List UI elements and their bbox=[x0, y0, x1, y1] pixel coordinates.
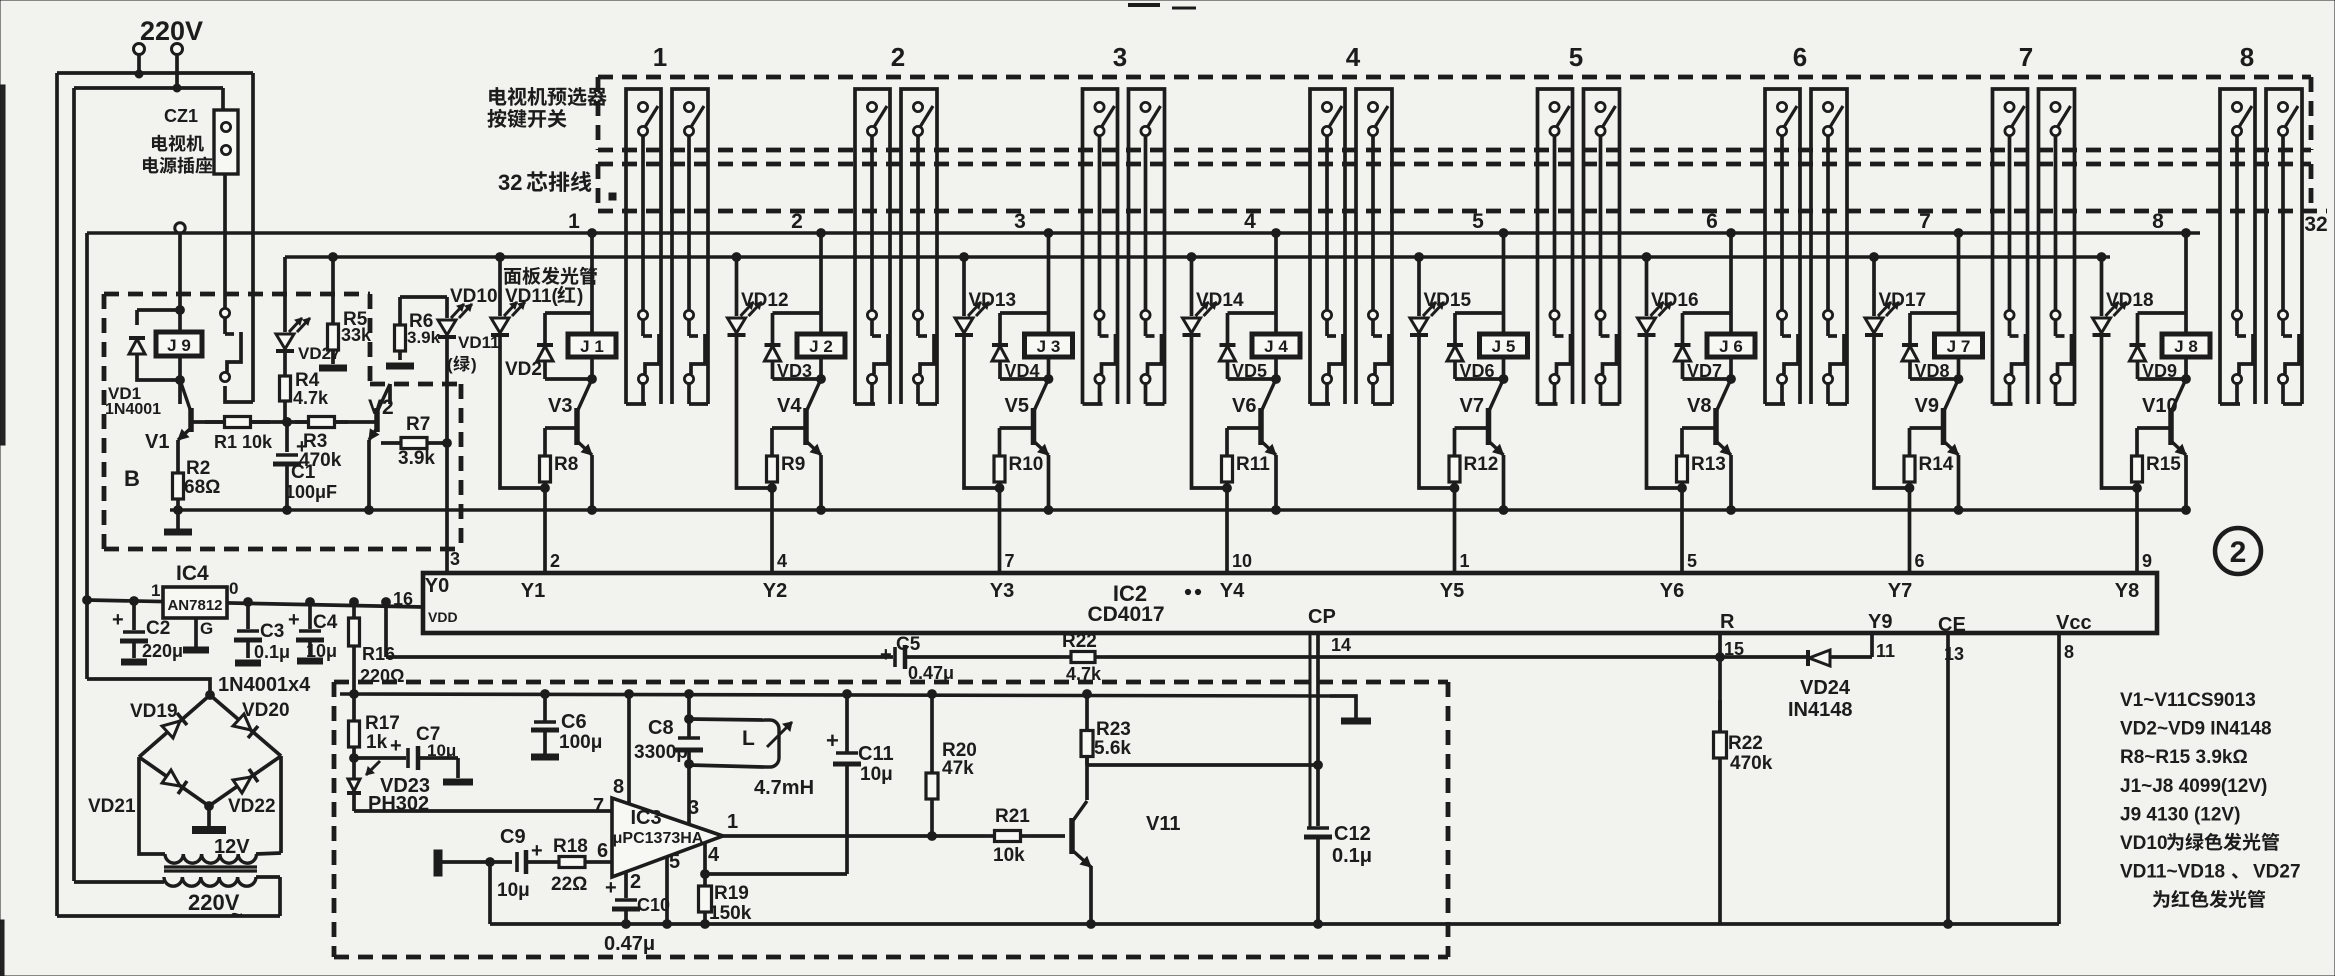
svg-text:VD15: VD15 bbox=[1424, 290, 1472, 311]
label C1 bbox=[291, 462, 316, 483]
wire Y7 column bbox=[1908, 488, 1912, 573]
label Y9 bbox=[1868, 611, 1892, 633]
wire inner loop left rail bbox=[72, 88, 76, 881]
svg-text:7: 7 bbox=[593, 795, 604, 817]
LED VD27 bbox=[276, 257, 310, 372]
IC IC2 box bbox=[423, 573, 2157, 633]
wire LED to R ch6 bbox=[1647, 481, 1683, 488]
svg-text:+: + bbox=[288, 609, 300, 631]
label R3 value bbox=[299, 450, 342, 471]
svg-text:7: 7 bbox=[1919, 210, 1931, 233]
label channel number 3 bbox=[1113, 42, 1127, 72]
label IC3 pin1 bbox=[727, 811, 738, 833]
svg-text:V10: V10 bbox=[2142, 395, 2178, 417]
diode VD1 bbox=[129, 338, 145, 354]
label VD12 bbox=[741, 290, 789, 311]
svg-text:R8: R8 bbox=[554, 454, 578, 475]
node J8 bottom bbox=[2182, 375, 2191, 384]
node J1 bottom bbox=[588, 375, 597, 384]
svg-text:J 3: J 3 bbox=[1037, 337, 1061, 356]
capacitor C6 bbox=[531, 690, 559, 757]
label CZ1 dianyuanchazuo bbox=[143, 156, 212, 173]
svg-text:(: ( bbox=[447, 355, 453, 374]
ground bridge bbox=[192, 806, 226, 830]
label IC2 bbox=[1113, 581, 1147, 606]
wire jog ch6 bbox=[1683, 311, 1732, 315]
wire VD11 to R8 bbox=[500, 481, 545, 488]
svg-text:1k: 1k bbox=[366, 732, 388, 753]
label R4 bbox=[295, 370, 320, 391]
resistor R22a bbox=[1060, 652, 1106, 663]
node V1 ground bbox=[174, 506, 183, 515]
wire drop ch5 bbox=[1502, 233, 1506, 313]
label R17 bbox=[365, 713, 400, 734]
wire J4 coil bbox=[1274, 313, 1278, 379]
svg-text:R18: R18 bbox=[553, 836, 588, 857]
label node 1 bbox=[568, 210, 580, 233]
svg-text:R15: R15 bbox=[2146, 454, 2181, 475]
svg-text:32: 32 bbox=[498, 170, 522, 195]
capacitor C8 bbox=[675, 719, 703, 764]
node emitter ch3 bbox=[1044, 506, 1053, 515]
wire V2 collector up bbox=[388, 384, 392, 404]
label C1 value bbox=[285, 482, 337, 502]
svg-text:8: 8 bbox=[613, 776, 624, 798]
note line 4 bbox=[2120, 776, 2267, 797]
label 32xin bbox=[498, 170, 591, 195]
wire pin1 out bbox=[723, 834, 985, 838]
label pin 5 ch6 bbox=[1687, 551, 1697, 571]
label R15 bbox=[2146, 454, 2181, 475]
scan edge artifact bottom bbox=[0, 920, 4, 976]
label channel number 2 bbox=[891, 42, 905, 72]
label V8 bbox=[1687, 395, 1711, 417]
wire Y8 column bbox=[2135, 488, 2139, 573]
label C9 bbox=[500, 826, 526, 848]
svg-text:Y7: Y7 bbox=[1888, 580, 1912, 602]
svg-text:V7: V7 bbox=[1460, 395, 1484, 417]
label IC3 pin4 bbox=[708, 844, 720, 866]
wire bridge to rail bbox=[87, 679, 210, 695]
label Y3 bbox=[990, 580, 1014, 602]
svg-text:3.9k: 3.9k bbox=[398, 448, 435, 469]
label C11 plus bbox=[826, 728, 839, 753]
svg-text:V1~V11CS9013: V1~V11CS9013 bbox=[2120, 690, 2256, 711]
wire drop ch8 bbox=[2184, 233, 2188, 313]
svg-text:9: 9 bbox=[2142, 551, 2152, 571]
scan edge artifact bbox=[0, 85, 5, 445]
relay J5 box bbox=[1480, 334, 1528, 357]
svg-text:VD19: VD19 bbox=[130, 701, 178, 722]
label pin11 bbox=[1876, 641, 1895, 661]
label L value bbox=[754, 777, 814, 799]
svg-text:2: 2 bbox=[891, 42, 905, 72]
wire R line drop bbox=[382, 598, 391, 657]
node pin8 top bbox=[625, 690, 634, 699]
resistor R14 bbox=[1904, 428, 1915, 488]
wire pin5 bbox=[665, 857, 669, 924]
label Y8 bbox=[2115, 580, 2139, 602]
capacitor C12 bbox=[1304, 765, 1332, 924]
label VD1 bbox=[108, 384, 141, 403]
label IC3 bbox=[630, 807, 661, 829]
transistor V10 bbox=[2171, 379, 2186, 455]
node LED ch6 on bus2 bbox=[1642, 253, 1651, 262]
svg-text:V5: V5 bbox=[1005, 395, 1029, 417]
relay J3 box bbox=[1025, 334, 1073, 357]
svg-text:C6: C6 bbox=[561, 711, 587, 733]
wire L top feed bbox=[687, 694, 691, 719]
label C2 plus bbox=[112, 609, 124, 631]
switch channel 6 unit B bbox=[1811, 89, 1847, 404]
node R19 gnd bbox=[701, 920, 710, 929]
label VDD bbox=[428, 609, 458, 625]
svg-text:R23: R23 bbox=[1096, 719, 1131, 740]
node J6 bottom bbox=[1727, 375, 1736, 384]
label C12 bbox=[1334, 823, 1371, 845]
svg-text:VDD: VDD bbox=[428, 609, 458, 625]
label 32 bbox=[2304, 213, 2327, 236]
diode VD8 bbox=[1902, 313, 1918, 379]
ground V1 bbox=[164, 510, 192, 532]
svg-text:J 1: J 1 bbox=[580, 337, 604, 356]
wire LED to R ch5 bbox=[1419, 481, 1455, 488]
dashed box B outline bbox=[104, 294, 461, 549]
wire base ch5 bbox=[1455, 426, 1489, 430]
wire emitter ch6 bbox=[1729, 455, 1733, 510]
node 1 on bus1 bbox=[588, 229, 597, 238]
label R18 bbox=[553, 836, 588, 857]
bridge edge VD20 bbox=[210, 695, 281, 756]
label tilde bbox=[231, 904, 243, 926]
label VD4 bbox=[1005, 361, 1040, 381]
node V2 ground bbox=[365, 506, 374, 515]
svg-text:IN4148: IN4148 bbox=[1788, 699, 1853, 721]
svg-text:R: R bbox=[1720, 611, 1735, 633]
transistor V6 bbox=[1261, 379, 1276, 455]
node 6 on bus1 bbox=[1727, 229, 1736, 238]
label CP bbox=[1308, 606, 1336, 628]
inductor primary 220V bbox=[164, 877, 280, 916]
svg-text:J 8: J 8 bbox=[2174, 337, 2198, 356]
label VD10 color2 bbox=[447, 355, 477, 374]
wire IR top bus bbox=[340, 694, 1330, 696]
label C10 value bbox=[604, 933, 655, 955]
wire 220V left feed bbox=[135, 54, 143, 78]
label V7 bbox=[1460, 395, 1484, 417]
svg-text:V3: V3 bbox=[548, 395, 572, 417]
svg-text:IC3: IC3 bbox=[630, 807, 661, 829]
label V2 bbox=[368, 396, 394, 419]
label J1 bbox=[580, 337, 604, 356]
svg-text:3.9k: 3.9k bbox=[407, 328, 441, 347]
node bridge bottom bbox=[205, 802, 214, 811]
label C4 plus bbox=[288, 609, 300, 631]
resistor R5 bbox=[328, 257, 339, 364]
svg-text:VD13: VD13 bbox=[969, 290, 1017, 311]
svg-text:R22: R22 bbox=[1062, 631, 1097, 652]
label C2 bbox=[146, 618, 170, 639]
label VD24 bbox=[1800, 677, 1851, 699]
wire drop ch6 bbox=[1729, 233, 1733, 313]
svg-text:10: 10 bbox=[1232, 551, 1252, 571]
resistor R12 bbox=[1449, 428, 1460, 488]
svg-text:IC4: IC4 bbox=[176, 562, 209, 585]
node C12 gnd bbox=[1314, 920, 1323, 929]
label pin 6 ch7 bbox=[1915, 551, 1925, 571]
label CZ1 bbox=[164, 106, 198, 126]
switch channel 2 unit A bbox=[855, 89, 890, 404]
switch channel 7 unit B bbox=[2039, 89, 2075, 404]
node L bus bbox=[685, 690, 694, 699]
label pin 7 ch3 bbox=[1005, 551, 1015, 571]
node R5 top bbox=[329, 253, 338, 262]
svg-text:C2: C2 bbox=[146, 618, 170, 639]
svg-text:Y0: Y0 bbox=[425, 575, 449, 597]
switch channel 3 unit A bbox=[1083, 89, 1118, 404]
wire diode bottom ch7 bbox=[1910, 377, 1959, 381]
capacitor C3 bbox=[234, 598, 262, 663]
svg-text:Y8: Y8 bbox=[2115, 580, 2139, 602]
svg-text:+: + bbox=[296, 436, 308, 458]
contact J9 pole A bbox=[220, 308, 241, 381]
IC IC4 box bbox=[163, 587, 227, 618]
wire diode bottom ch8 bbox=[2138, 377, 2187, 381]
svg-text:VD20: VD20 bbox=[242, 700, 290, 721]
wire J7 coil bbox=[1957, 313, 1961, 379]
diode VD9 bbox=[2130, 313, 2146, 379]
capacitor C10 bbox=[612, 900, 640, 924]
svg-text:7: 7 bbox=[2019, 42, 2033, 72]
wire diode bottom ch6 bbox=[1683, 377, 1732, 381]
svg-text:CD4017: CD4017 bbox=[1087, 603, 1164, 626]
label node 3 bbox=[1014, 210, 1026, 233]
svg-text:1: 1 bbox=[151, 581, 160, 600]
wire J6 coil bbox=[1729, 313, 1733, 379]
svg-text:V8: V8 bbox=[1687, 395, 1711, 417]
svg-text:4.7mH: 4.7mH bbox=[754, 777, 814, 799]
transistor V8 bbox=[1716, 379, 1731, 455]
svg-text:V4: V4 bbox=[777, 395, 802, 417]
label R4 value bbox=[293, 388, 329, 408]
wire C9 gnd drop bbox=[488, 862, 492, 924]
diode VD7 bbox=[1675, 313, 1691, 379]
terminal 220V left bbox=[134, 44, 145, 55]
core lines bbox=[164, 867, 257, 871]
switch channel 5 unit A bbox=[1538, 89, 1573, 404]
label C11 value bbox=[860, 764, 893, 785]
node emitter ch2 bbox=[817, 506, 826, 515]
svg-text:C9: C9 bbox=[500, 826, 526, 848]
wire pin15 drop bbox=[1718, 633, 1722, 736]
wire pin8 bbox=[627, 694, 631, 804]
resistor R3 bbox=[295, 417, 348, 428]
wire bus line2 LED bbox=[285, 255, 2110, 259]
svg-text:220V: 220V bbox=[140, 16, 203, 46]
label channel number 6 bbox=[1793, 42, 1807, 72]
node J9 bottom bbox=[176, 376, 185, 385]
scan mark top1 bbox=[1128, 3, 1160, 7]
svg-text:J1~J8 4099(12V): J1~J8 4099(12V) bbox=[2120, 776, 2267, 797]
transistor V1 bbox=[178, 380, 191, 440]
label VD9 bbox=[2142, 361, 2177, 381]
label R8 bbox=[554, 454, 578, 475]
wire ground bus bottom bbox=[490, 922, 2059, 926]
switch channel 8 unit A bbox=[2220, 89, 2255, 404]
label Y5 bbox=[1440, 580, 1464, 602]
capacitor C2 bbox=[120, 597, 148, 662]
wire pin11 stub bbox=[1870, 633, 1874, 657]
node terminal on bus1 bbox=[175, 223, 185, 233]
relay J4 box bbox=[1252, 334, 1300, 357]
svg-text:47k: 47k bbox=[942, 758, 974, 779]
dashed box ribbon cable bbox=[598, 164, 2327, 211]
scan mark top2 bbox=[1172, 7, 1196, 10]
switch channel 5 unit B bbox=[1584, 89, 1620, 404]
transistor V5 bbox=[1034, 379, 1049, 455]
wire Y1 column bbox=[543, 488, 547, 573]
svg-text:R8~R15 3.9kΩ: R8~R15 3.9kΩ bbox=[2120, 747, 2248, 768]
svg-text:2: 2 bbox=[2230, 536, 2247, 569]
wire base line V1-V2 bbox=[191, 420, 375, 424]
label J8 bbox=[2174, 337, 2198, 356]
transistor V4 bbox=[806, 379, 821, 455]
svg-text:0: 0 bbox=[229, 579, 238, 598]
resistor R10 bbox=[994, 428, 1005, 488]
capacitor C7 bbox=[354, 746, 473, 782]
label node 2 bbox=[791, 210, 803, 233]
relay J6 box bbox=[1707, 334, 1755, 357]
svg-text:C11: C11 bbox=[858, 743, 894, 765]
wire inner loop right drop bbox=[223, 88, 225, 110]
node LED ch5 on bus2 bbox=[1415, 253, 1424, 262]
node emitter ch5 bbox=[1499, 506, 1508, 515]
svg-text:R14: R14 bbox=[1919, 454, 1954, 475]
svg-text:5: 5 bbox=[1472, 210, 1484, 233]
svg-text:1: 1 bbox=[1460, 551, 1470, 571]
svg-text:μPC1373HA: μPC1373HA bbox=[613, 830, 704, 847]
node emitter ch7 bbox=[1954, 506, 1963, 515]
svg-text:C1: C1 bbox=[291, 462, 316, 483]
resistor R17 bbox=[349, 694, 360, 758]
svg-text:C8: C8 bbox=[648, 717, 674, 739]
label IC4 pinG bbox=[200, 619, 213, 638]
switch channel 4 unit B bbox=[1356, 89, 1392, 404]
label R21 bbox=[995, 806, 1030, 827]
wire emitter ch2 bbox=[819, 455, 823, 510]
svg-text:VD24: VD24 bbox=[1800, 677, 1851, 699]
wire pin8 Vcc drop bbox=[2057, 633, 2061, 924]
label channel number 7 bbox=[2019, 42, 2033, 72]
label R22a bbox=[1062, 631, 1097, 652]
label VD16 bbox=[1651, 290, 1699, 311]
socket CZ1 pin2 bbox=[221, 145, 230, 154]
label Y7 bbox=[1888, 580, 1912, 602]
node R11 bottom bbox=[1223, 484, 1232, 493]
resistor R23 bbox=[1081, 690, 1093, 765]
label R7 bbox=[406, 414, 430, 435]
wire outer loop left rail bbox=[55, 73, 59, 916]
wire pin15 to gnd bus bbox=[1718, 790, 1722, 924]
svg-text:V9: V9 bbox=[1915, 395, 1939, 417]
wire diode bottom ch2 bbox=[773, 377, 822, 381]
diode VD24 bbox=[1720, 650, 1872, 666]
switch channel 1 unit A bbox=[626, 89, 661, 404]
label node 4 bbox=[1244, 210, 1256, 233]
label pin14 bbox=[1331, 635, 1351, 655]
label anjiankaiguan bbox=[487, 109, 566, 128]
resistor R22b 470k bbox=[1714, 700, 1727, 790]
node L top bbox=[685, 715, 694, 724]
label R18 value bbox=[551, 874, 587, 895]
svg-text:R16: R16 bbox=[362, 644, 395, 664]
svg-text:Y3: Y3 bbox=[990, 580, 1014, 602]
label R7 value bbox=[398, 448, 435, 469]
svg-text:): ) bbox=[471, 355, 477, 374]
svg-text:VD16: VD16 bbox=[1651, 290, 1699, 311]
label channel number 5 bbox=[1569, 42, 1583, 72]
label VD22 bbox=[228, 796, 276, 817]
label Y1 bbox=[521, 580, 545, 602]
wire mains to primary outer bbox=[57, 914, 280, 918]
label C2 value bbox=[142, 641, 183, 661]
label pin3 Y0 bbox=[450, 549, 460, 569]
label panel LED bbox=[504, 267, 597, 285]
note line 7 bbox=[2120, 862, 2301, 883]
label C5 bbox=[896, 634, 921, 655]
label C1 plus bbox=[296, 436, 308, 458]
node VD11 top bbox=[496, 253, 505, 262]
label C4 value bbox=[306, 641, 337, 661]
svg-text:J 4: J 4 bbox=[1264, 337, 1288, 356]
resistor R19 bbox=[699, 874, 712, 924]
label J2 bbox=[809, 337, 833, 356]
wire VD23 to pin7 bbox=[354, 793, 612, 811]
label R22a value bbox=[1066, 664, 1102, 684]
svg-text:VD11~VD18: VD11~VD18 bbox=[2120, 862, 2225, 883]
node IC4 input bbox=[83, 596, 92, 605]
ground R6 bbox=[386, 363, 414, 370]
label R19 bbox=[714, 883, 749, 904]
label R22b value bbox=[1730, 753, 1773, 774]
resistor R9 bbox=[767, 428, 778, 488]
label pin 10 ch4 bbox=[1232, 551, 1252, 571]
svg-text:6: 6 bbox=[1706, 210, 1718, 233]
wire diode bottom ch1 bbox=[545, 377, 592, 381]
svg-text:): ) bbox=[577, 286, 583, 307]
label C10 bbox=[637, 895, 670, 915]
resistor R11 bbox=[1222, 428, 1233, 488]
label IC4 pin1 bbox=[151, 581, 160, 600]
wire jog ch2 bbox=[773, 311, 822, 315]
wire LED to R ch3 bbox=[964, 481, 1000, 488]
label R reset bbox=[1720, 611, 1735, 633]
label IC3 pin6 bbox=[597, 840, 608, 862]
label IC4 pin0 bbox=[229, 579, 238, 598]
wire emitter ch1 bbox=[590, 455, 594, 510]
svg-text:C4: C4 bbox=[313, 612, 338, 633]
svg-text:0.1μ: 0.1μ bbox=[254, 642, 290, 662]
note line 5 bbox=[2120, 804, 2240, 825]
label C6 value bbox=[559, 732, 602, 753]
label R2 bbox=[186, 458, 210, 479]
svg-text:5: 5 bbox=[1687, 551, 1697, 571]
node R20 bottom bbox=[928, 832, 937, 841]
label 220V transformer bbox=[188, 890, 240, 915]
switch channel 7 unit A bbox=[1993, 89, 2028, 404]
wire base ch7 bbox=[1910, 426, 1944, 430]
wire emitter ch4 bbox=[1274, 455, 1278, 510]
